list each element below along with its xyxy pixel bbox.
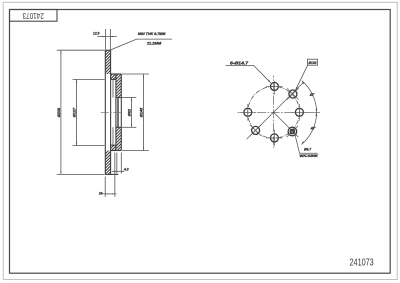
centre bore top edge [116, 96, 121, 98]
bolt holes note leader [254, 65, 271, 82]
dimension D2 text Ø127 [73, 107, 77, 117]
svg-text:45°: 45° [310, 127, 316, 131]
bore inner detail lines [117, 97, 119, 127]
hat inner surface top [111, 78, 116, 80]
45 degree diagonal centerline [247, 82, 304, 139]
dimension 4.3 extension lines [117, 153, 121, 174]
hat inner surface bottom [111, 144, 116, 146]
svg-text:Ø145: Ø145 [140, 107, 144, 117]
vertical centerline [273, 76, 275, 149]
mounting flange left face [115, 74, 117, 151]
hat wall inner edge upper [112, 79, 114, 97]
ring OD top edge [105, 49, 110, 51]
hat outer surface top [111, 73, 122, 75]
angle dimension arc [302, 81, 317, 145]
bolt hole N (top) [270, 82, 278, 90]
dimension D2 hat inner extension lines [73, 79, 105, 145]
dimension 12.5 dimension line [97, 36, 117, 38]
svg-text:6-Ø14.7: 6-Ø14.7 [230, 61, 248, 66]
section outline: friction ring and hat [105, 50, 121, 174]
svg-text:W/CSINK: W/CSINK [300, 154, 319, 158]
svg-text:12.5: 12.5 [93, 31, 100, 36]
svg-text:241073: 241073 [23, 11, 44, 20]
dimension D2 dimension line [76, 79, 78, 145]
dimension D3 centre bore extension lines [122, 97, 136, 127]
dimension D3 text Ø62 [128, 108, 132, 116]
hole crosshairs [239, 81, 320, 146]
svg-text:MIN THK 9.7MM: MIN THK 9.7MM [138, 31, 166, 36]
friction ring left face [104, 50, 106, 174]
svg-text:Ø6.7: Ø6.7 [304, 147, 312, 152]
countersunk hole SE outer [288, 127, 297, 136]
PCD leader arrow [295, 87, 297, 90]
dimension D4 arrows [143, 74, 144, 151]
countersunk hole leader [295, 134, 300, 153]
bolt hole E [295, 108, 303, 116]
bolt holes note arrow [268, 80, 271, 83]
axis centerline left view [101, 111, 123, 113]
dimension D1 arrows [60, 50, 61, 174]
dimension D1 text Ø236 [57, 107, 61, 117]
angle arc arrows [302, 81, 318, 145]
horizontal centerline [238, 111, 311, 113]
svg-text:241073: 241073 [350, 256, 374, 267]
dimension D1 OD dimension line [60, 50, 62, 174]
bolt hole SW [252, 126, 260, 134]
part number 241073 top-left (rotated 180) [23, 11, 44, 20]
dimension 4.3 dimension line [112, 170, 124, 172]
hat wall inner edge lower [112, 127, 114, 145]
tangential centerline of countersunk hole [287, 126, 299, 138]
countersunk hole note underline [299, 152, 317, 154]
dimension D4 dimension line [143, 74, 145, 151]
svg-text:11.2MM: 11.2MM [147, 40, 162, 45]
dimension D1 OD extension lines [57, 50, 105, 174]
hat outer surface bottom [111, 150, 122, 152]
svg-text:45°: 45° [309, 93, 315, 97]
mounting flange right face [120, 74, 122, 151]
dimension 12.5 extension lines [105, 29, 110, 50]
bolt holes note underline [226, 64, 254, 66]
dimension D3 dimension line [131, 97, 133, 127]
dimension D4 text Ø145 [140, 107, 144, 117]
svg-text:Ø127: Ø127 [73, 107, 77, 117]
centre bore bottom edge [116, 126, 121, 128]
pitch circle (dash-dot) [248, 86, 300, 138]
part number 241073 bottom-right [350, 256, 374, 267]
svg-text:Ø100: Ø100 [309, 60, 318, 65]
dimension D2 arrows [76, 79, 77, 145]
dimension 10 extension lines [105, 153, 115, 197]
leader MIN THK note [111, 39, 172, 50]
dimension 4.3 arrows [114, 171, 124, 172]
dimension 10 dimension line [100, 193, 117, 195]
PCD leader [295, 65, 307, 90]
bolt hole S (bottom) [270, 134, 278, 142]
PCD framed dimension box [308, 59, 318, 65]
dimension 12.5 arrows [102, 36, 113, 37]
svg-text:Ø236: Ø236 [57, 107, 61, 117]
title box top-left [10, 10, 58, 22]
dimension D3 arrows [131, 97, 132, 127]
countersunk hole SE inner [290, 130, 294, 134]
bolt hole NE [289, 90, 297, 98]
section hatching [100, 20, 126, 232]
svg-text:4.3: 4.3 [123, 168, 129, 172]
bolt hole W [244, 108, 252, 116]
friction ring right face [110, 50, 112, 174]
dimension D4 hat outer extension lines [122, 74, 149, 151]
dimension 10 arrows [105, 193, 115, 194]
svg-text:Ø62: Ø62 [128, 108, 132, 116]
ring OD bottom edge [105, 173, 118, 175]
svg-text:10: 10 [99, 191, 102, 195]
radial centerline of countersunk hole [274, 113, 298, 137]
